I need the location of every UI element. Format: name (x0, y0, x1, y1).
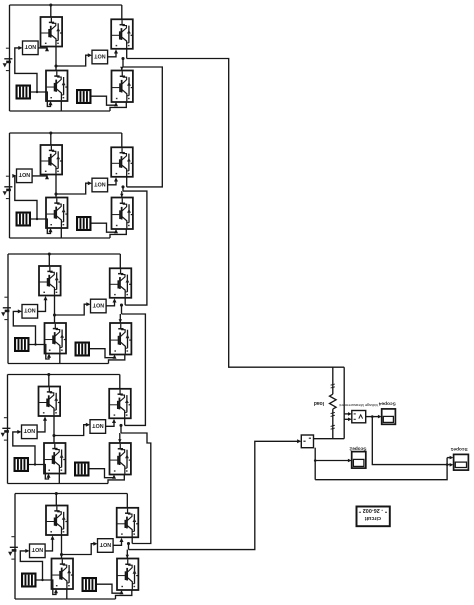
svg-text:NOT: NOT (99, 541, 111, 547)
wire: cell1 NOT1 input feed (15, 46, 38, 93)
svg-text:NOT: NOT (18, 171, 30, 177)
wire: cell4 IGBT13 collector stub (48, 375, 50, 387)
node: cell5 right leg midpoint (127, 542, 130, 545)
pulse generator P9 (cell 5) (21, 573, 37, 588)
wire: cell2 NOT3 input feed (12, 174, 38, 220)
svg-text:NOT: NOT (31, 546, 43, 552)
svg-text:load: load (314, 400, 324, 406)
logic NOT7 (cell 4) (22, 425, 38, 439)
wire: cell2 IGBT6 emitter stub (126, 177, 128, 187)
wire: load bottom lead (331, 409, 335, 439)
meter: Voltage Measurement U_V (352, 411, 366, 423)
svg-text:NOT: NOT (94, 180, 106, 186)
wire: load bottom node to current measurement (314, 438, 345, 440)
wire: cell2 pulse generator P4 to IGBT8 gate (92, 223, 119, 233)
wire: cell1 pulse generator P1 to IGBT3 gate (31, 92, 53, 107)
wire: current signal to Scope2 (315, 459, 352, 463)
wire: cell1 NOT2 input feed (56, 53, 92, 66)
transistor IGBT2 (cell 1 upper-right) (111, 19, 133, 49)
pulse generator P5 (cell 3) (14, 337, 30, 352)
wire: cell2 NOT3 output to IGBT5 gate (32, 175, 49, 179)
DC voltage source E1 (3, 48, 13, 70)
wire: cell5 IGBT17 emitter to IGBT19 collector (61, 535, 63, 559)
transistor IGBT1 (cell 1 upper-left) (41, 17, 63, 47)
wire: cell3 IGBT10 emitter stub (124, 298, 126, 305)
transistor IGBT15 (cell 4 lower-left) (44, 443, 66, 474)
wire: cell4 NOT8 output to IGBT14 gate (106, 419, 116, 427)
wire: cell1 IGBT1 collector stub (50, 5, 52, 17)
transistor IGBT10 (cell 3 upper-right) (110, 268, 132, 298)
wire: cell5 left DC rail (14, 494, 16, 600)
wire: cell2 IGBT6 collector stub (121, 133, 123, 147)
DC voltage source E3 (1, 297, 11, 319)
wire: cell4 midpoint drop (120, 425, 122, 433)
node: cell5 left leg midpoint (60, 553, 63, 556)
svg-text:circuit: circuit (365, 515, 381, 521)
logic NOT3 (cell 2) (17, 169, 33, 183)
wire: cell4 DC bus top rail (8, 374, 120, 376)
wire: cell5 midpoint drop (128, 544, 130, 550)
wire: cell4 IGBT14 collector stub (119, 375, 121, 389)
transistor IGBT18 (cell 5 upper-right) (117, 508, 139, 538)
node: cell4 right leg midpoint (119, 424, 122, 427)
wire: cell3 pulse generator P5 to IGBT11 gate (30, 345, 52, 360)
wire: cell3 NOT6 input feed (55, 302, 91, 315)
pulse generator P6 (cell 3) (75, 342, 91, 357)
wire: cell2 IGBT5 emitter to IGBT7 collector (55, 175, 57, 198)
wire: cell3 DC bus top rail (8, 253, 120, 255)
logic NOT1 (cell 1) (23, 41, 39, 55)
logic NOT6 (cell 3) (91, 299, 107, 313)
pulse generator P7 (cell 4) (14, 457, 30, 472)
wire: cell4 NOT7 output to IGBT13 gate (37, 417, 47, 432)
node: cell5 top-bus junction (55, 492, 58, 495)
svg-text:NOT: NOT (24, 43, 36, 49)
resistor load (RL) (330, 394, 337, 409)
node: cell1 right leg midpoint (121, 57, 124, 60)
transistor IGBT12 (cell 3 lower-right) (110, 323, 131, 355)
wire: cell1 output bus to load (node A) (127, 59, 345, 368)
transistor IGBT17 (cell 5 upper-left) (46, 506, 68, 536)
wire: cascade cell4 to cell5 (121, 433, 151, 544)
scope Scope1 (two-channel) (450, 446, 468, 470)
transistor IGBT4 (cell 1 lower-right) (112, 71, 133, 103)
node: cell1 top-bus junction (49, 3, 52, 6)
wire: cell4 IGBT14 emitter stub (124, 418, 126, 425)
pulse generator P10 (cell 5) (82, 577, 98, 592)
pulse generator P4 (cell 2) (76, 216, 92, 231)
wire: cell3 NOT5 input feed (13, 309, 36, 345)
wire: cell2 IGBT5 collector stub (50, 133, 52, 145)
svg-text:NOT: NOT (23, 427, 35, 433)
svg-text:Scope2: Scope2 (349, 445, 366, 451)
wire: cell1 pulse generator P2 to IGBT4 gate (92, 96, 119, 106)
meter: Current Measurement U_I (301, 435, 313, 448)
wire: cell4 pulse generator P8 to IGBT16 gate (90, 469, 117, 479)
DC voltage source E4 (1, 418, 11, 440)
wire: cell2 NOT4 output to IGBT6 gate (108, 177, 118, 185)
logic NOT2 (cell 1) (92, 50, 108, 64)
wire: cell4 NOT8 input feed (54, 423, 90, 436)
transistor IGBT6 (cell 2 upper-right) (111, 147, 133, 177)
wire: cell5 IGBT17 collector stub (55, 494, 57, 506)
wire: cell5 IGBT19 emitter to bottom rail (66, 589, 68, 599)
wire: cell4 pulse generator P7 to IGBT15 gate (29, 465, 51, 480)
transistor IGBT13 (cell 4 upper-left) (39, 387, 61, 417)
wire: cell4 NOT7 input feed (13, 430, 36, 466)
wire: cell2 DC bus top rail (10, 132, 122, 134)
pulse generator P8 (cell 4) (74, 462, 90, 477)
wire: voltage signal branch to Scope1 (372, 417, 447, 465)
wire: cell4 DC bus bottom rail (8, 475, 125, 484)
transistor IGBT20 (cell 5 lower-right) (117, 559, 138, 591)
node: cell2 left leg midpoint (54, 192, 57, 195)
wire: cell2 DC bus bottom rail (10, 229, 127, 238)
wire: Scope1 lower input arrow (447, 463, 453, 467)
wire: cell5 IGBT20 collector stub (126, 550, 129, 559)
node: cell3 right leg midpoint (120, 304, 123, 307)
wire: cell3 IGBT12 collector stub (119, 314, 122, 323)
wire: cell1 DC bus bottom rail (10, 102, 127, 111)
pulse generator P2 (cell 1) (76, 89, 92, 104)
DC voltage source E5 (8, 537, 18, 559)
DC voltage source E2 (3, 176, 13, 198)
wire: cell3 IGBT11 emitter to bottom rail (59, 354, 61, 364)
node: cell4 top-bus junction (47, 373, 50, 376)
transistor IGBT9 (cell 3 upper-left) (39, 266, 61, 296)
svg-text:NOT: NOT (94, 52, 106, 58)
wire: cell2 NOT4 input feed (56, 181, 92, 194)
wire: voltage measurement output to Scope4 (366, 415, 382, 419)
transistor IGBT16 (cell 4 lower-right) (110, 443, 131, 475)
wire: cell2 IGBT8 collector stub (120, 191, 123, 197)
transistor IGBT7 (cell 2 lower-left) (46, 198, 68, 229)
logic NOT8 (cell 4) (90, 420, 106, 434)
wire: cell1 left DC rail (9, 5, 11, 111)
node: Scope1 input junction (446, 463, 449, 466)
wire: cell5 NOT9 input feed (20, 549, 43, 581)
node: cell3 top-bus junction (48, 252, 51, 255)
wire: cell4 IGBT15 emitter to bottom rail (58, 474, 60, 484)
wire: current measurement output node (314, 448, 317, 480)
node: cell2 top-bus junction (49, 131, 52, 134)
logic NOT10 (cell 5) (98, 539, 114, 553)
wire: cell2 midpoint drop (122, 187, 124, 191)
wire: cascade cell1 to cell2 (123, 67, 162, 187)
wire: cell3 IGBT10 collector stub (119, 254, 121, 268)
wire: cell1 NOT2 output to IGBT2 gate (108, 49, 118, 57)
svg-text:Scope4: Scope4 (378, 401, 395, 407)
wire: Scope1 upper input arrow (447, 456, 453, 460)
wire: cell5 NOT10 input feed (62, 542, 98, 555)
wire: current signal branch to Scope1 (315, 458, 447, 480)
wire: cell4 left DC rail (7, 375, 9, 484)
node: cell3 left leg midpoint (53, 313, 56, 316)
wire: cascade cell3 to cell4 (122, 314, 146, 425)
wire: cell1 midpoint drop (122, 59, 124, 68)
wire: cell4 IGBT16 collector stub (118, 433, 121, 443)
wire: cell3 NOT5 output to IGBT9 gate (38, 296, 48, 311)
wire: cell1 IGBT2 emitter stub (126, 49, 128, 59)
wire: load top lead (331, 367, 335, 394)
svg-text:NOT: NOT (92, 301, 104, 307)
wire: cell2 pulse generator P3 to IGBT7 gate (31, 219, 53, 234)
wire: cell3 DC bus bottom rail (8, 355, 125, 364)
wire: cell5 NOT10 output to IGBT18 gate (113, 538, 123, 546)
wire: cell3 NOT6 output to IGBT10 gate (106, 298, 116, 306)
wire: cell5 IGBT18 collector stub (126, 494, 128, 508)
wire: voltage sense branch (344, 367, 352, 439)
node: cell4 left leg midpoint (52, 434, 55, 437)
logic NOT9 (cell 5) (30, 544, 46, 558)
wire: cell5 pulse generator P10 to IGBT20 gate (97, 584, 124, 594)
wire: cell5 DC bus top rail (15, 493, 127, 495)
transistor IGBT5 (cell 2 upper-left) (41, 145, 63, 175)
transistor IGBT19 (cell 5 lower-left) (52, 559, 74, 590)
wire: cell3 midpoint drop (121, 305, 123, 314)
wire: cell1 IGBT4 collector stub (120, 67, 123, 71)
transistor IGBT3 (cell 1 lower-left) (46, 71, 68, 102)
svg-text:Scope1: Scope1 (450, 446, 467, 452)
scope Scope2 (current) (349, 445, 366, 468)
wire: cell3 IGBT9 emitter to IGBT11 collector (54, 296, 56, 324)
wire: cell5 pulse generator P9 to IGBT19 gate (37, 580, 59, 595)
wire: cell2 IGBT7 emitter to bottom rail (60, 228, 62, 238)
wire: cell5 return to current measurement (node B) (129, 439, 302, 549)
pulse generator P3 (cell 2) (16, 212, 32, 227)
wire: cell2 left DC rail (9, 133, 11, 238)
wire: cell3 IGBT9 collector stub (48, 254, 50, 266)
logic NOT5 (cell 3) (22, 305, 38, 319)
transistor IGBT8 (cell 2 lower-right) (112, 198, 133, 230)
svg-text:Voltage Measurement: Voltage Measurement (338, 403, 378, 408)
wire: cell5 IGBT18 emitter stub (131, 537, 133, 543)
scope Scope4 (voltage) (378, 401, 395, 425)
transistor IGBT11 (cell 3 lower-left) (45, 323, 67, 354)
wire: cell3 pulse generator P6 to IGBT12 gate (90, 349, 117, 359)
pulse generator P1 (cell 1) (16, 85, 32, 100)
node: cell2 right leg midpoint (121, 185, 124, 188)
svg-text:NOT: NOT (24, 307, 36, 313)
wire: cell3 left DC rail (7, 254, 9, 364)
annotation: 26-002 circuit note (357, 507, 390, 527)
wire: cell1 NOT1 output to IGBT1 gate (38, 47, 49, 51)
wire: cell1 IGBT3 emitter to bottom rail (60, 101, 62, 111)
svg-text:" - 26-002 ": " - 26-002 " (358, 507, 387, 513)
wire: cell1 IGBT1 emitter to IGBT3 collector (55, 47, 57, 71)
svg-text:NOT: NOT (92, 422, 104, 428)
wire: cell5 DC bus bottom rail (15, 590, 132, 599)
logic NOT4 (cell 2) (92, 178, 108, 192)
wire: cell1 IGBT2 collector stub (121, 5, 123, 19)
node: cell1 left leg midpoint (54, 64, 57, 67)
wire: cell5 NOT9 output to IGBT17 gate (45, 536, 54, 551)
wire: cell1 DC bus top rail (10, 4, 122, 6)
transistor IGBT14 (cell 4 upper-right) (109, 389, 131, 419)
wire: cascade cell2 to cell3 (123, 191, 147, 305)
wire: cell4 IGBT13 emitter to IGBT15 collector (53, 416, 55, 443)
